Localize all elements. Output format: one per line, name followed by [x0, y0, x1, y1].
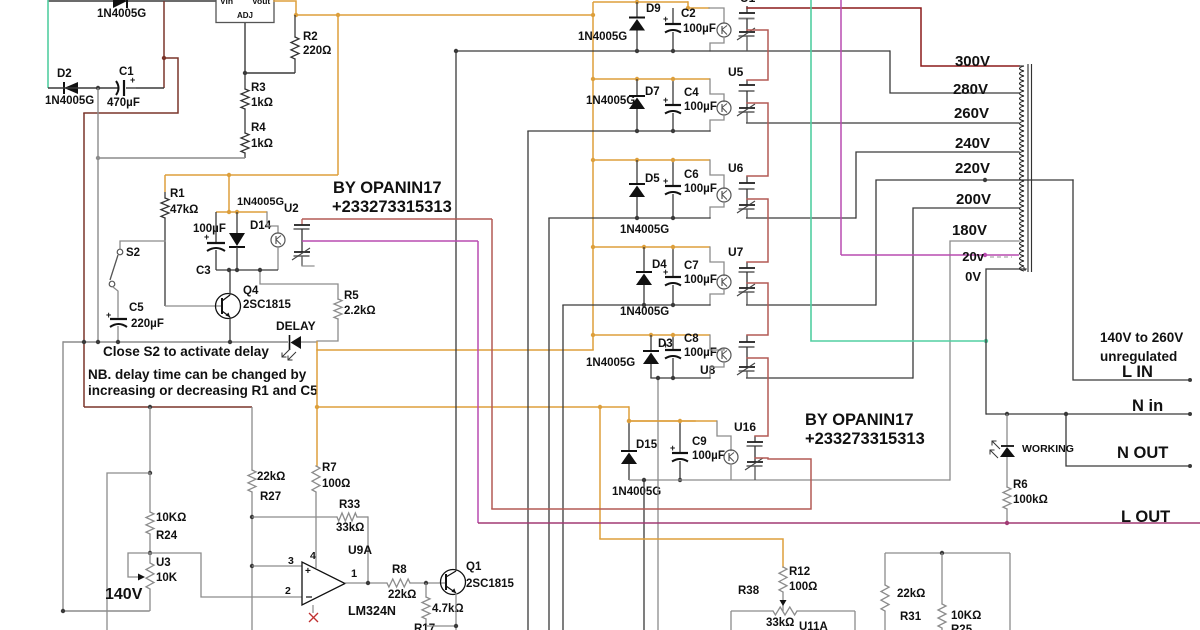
label WORKING: [1022, 443, 1074, 455]
node y88: [96, 86, 100, 90]
label pin3: [288, 555, 294, 567]
wire orange y539: [600, 539, 783, 567]
svg-text:L IN: L IN: [1122, 363, 1153, 381]
node feed cap C6: [671, 158, 675, 162]
svg-text:NB. delay time can be changed: NB. delay time can be changed by: [88, 367, 307, 382]
wire opamp out: [345, 582, 387, 584]
wire U8 emitter: [710, 362, 724, 379]
label U8: [700, 363, 716, 377]
node orange x338: [336, 13, 340, 17]
label U2: [284, 203, 299, 215]
svg-text:10KΩ: 10KΩ: [156, 512, 186, 524]
label U1 1N4005G: [578, 31, 627, 43]
text by opanin 2a: [805, 411, 914, 429]
svg-text:unregulated: unregulated: [1100, 349, 1177, 364]
wire pink x478: [477, 241, 479, 523]
label R3 1kohm: [251, 97, 273, 109]
svg-text:Q1: Q1: [466, 561, 482, 573]
resistor R35: [938, 553, 946, 630]
led WORKING arrows: [990, 441, 1000, 458]
wire row4 triac out: [746, 304, 876, 306]
triac U1 out: [737, 6, 755, 51]
label R8 22k: [388, 589, 416, 601]
triac U5 out: [737, 80, 755, 123]
label R1 47k: [170, 204, 198, 216]
node feed diode D3: [649, 333, 653, 337]
svg-text:220V: 220V: [955, 160, 990, 177]
wire red chain 3: [747, 199, 768, 262]
wire 300V: [747, 8, 1019, 66]
svg-text:U8: U8: [700, 363, 716, 377]
label 100uF C3: [193, 223, 226, 235]
svg-text:100Ω: 100Ω: [789, 581, 817, 593]
svg-text:Vout: Vout: [252, 0, 270, 6]
label D4: [652, 259, 667, 271]
opamp U9A: [302, 562, 345, 605]
node R8 Q1: [424, 581, 428, 585]
label C2 100uF: [683, 23, 716, 35]
wire feed row U6: [593, 159, 710, 161]
power rail teal left: [47, 0, 49, 88]
svg-text:100µF: 100µF: [684, 183, 717, 195]
label R4: [251, 122, 266, 134]
node bottom C2: [671, 49, 675, 53]
node feed U7: [591, 245, 595, 249]
svg-text:2SC1815: 2SC1815: [243, 299, 292, 311]
wire row1 bottom 280V bus: [456, 50, 890, 52]
optocoupler U7 input: [710, 247, 731, 289]
label U3 10K: [156, 572, 178, 584]
label U7: [728, 245, 744, 259]
wire orange top bus y15: [296, 13, 595, 17]
resistor R31: [881, 553, 889, 630]
resistor R24: [146, 473, 154, 553]
resistor R12: [779, 567, 787, 611]
svg-text:R3: R3: [251, 82, 266, 94]
label 0V: [965, 269, 981, 284]
diode D2: [64, 82, 78, 94]
label 200V: [956, 191, 991, 208]
wire feed row U16: [629, 420, 717, 422]
wire Vout to R2: [274, 1, 296, 15]
label 1N4005G top: [97, 8, 146, 20]
capacitor C2: [663, 8, 681, 51]
node orange y210: [227, 210, 231, 214]
node N in LED: [1005, 412, 1009, 416]
wire orange y421 feed: [629, 407, 695, 421]
label R17: [414, 623, 435, 630]
label C1 470uF: [107, 97, 140, 109]
svg-text:U11A: U11A: [799, 621, 828, 630]
optocoupler U5 input: [710, 79, 731, 115]
svg-text:140V to 260V: 140V to 260V: [1100, 330, 1183, 345]
svg-text:200V: 200V: [956, 191, 991, 208]
svg-text:C1: C1: [119, 66, 134, 78]
label R33 33k: [336, 522, 364, 534]
svg-text:U2: U2: [284, 203, 299, 215]
wire feed row U5: [593, 78, 710, 80]
node R6 LOUT: [1005, 521, 1009, 525]
label R6: [1013, 479, 1028, 491]
label U8 1N4005G: [586, 357, 635, 369]
resistor R3: [241, 73, 249, 133]
svg-text:2.2kΩ: 2.2kΩ: [344, 305, 376, 317]
wire red x492 up: [491, 219, 493, 509]
label D9: [646, 3, 661, 15]
svg-text:1N4005G: 1N4005G: [586, 95, 635, 107]
wire LOUT y523: [478, 522, 1200, 524]
label U16: [734, 420, 756, 434]
node x150 y473: [148, 471, 152, 475]
wire emitter y626: [426, 626, 456, 630]
node feed cap C8: [671, 333, 675, 337]
label pin4: [310, 550, 316, 562]
wire orange x600 drop: [599, 407, 601, 539]
svg-text:100kΩ: 100kΩ: [1013, 494, 1048, 506]
svg-text:1N4005G: 1N4005G: [612, 486, 661, 498]
wire red chain 5: [747, 358, 768, 436]
wire red chain 4: [747, 283, 768, 335]
label D5: [645, 173, 660, 185]
resistor R27: [248, 407, 256, 630]
optocoupler U16 input: [717, 421, 738, 464]
resistor R2: [291, 15, 299, 73]
diode D7: [629, 79, 645, 131]
label N in: [1132, 397, 1163, 415]
capacitor C8: [663, 335, 681, 378]
svg-text:U1: U1: [740, 0, 756, 5]
label R35 10K: [951, 610, 981, 622]
resistor R17 4k7: [422, 583, 430, 626]
wire left rail x63: [63, 342, 149, 611]
svg-text:DELAY: DELAY: [276, 319, 316, 333]
svg-text:33kΩ: 33kΩ: [336, 522, 364, 534]
node feed diode D4: [642, 245, 646, 249]
terminal N OUT: [1188, 464, 1192, 468]
wire delay rail y342: [63, 341, 288, 343]
node 220V: [983, 178, 987, 182]
wire teal x811: [811, 0, 986, 341]
wire red U16 out: [492, 458, 811, 509]
label R31: [900, 611, 922, 623]
label 240V: [955, 135, 990, 152]
wire row6 bottom bus: [629, 479, 950, 481]
wire orange y406: [317, 406, 629, 408]
node feed U8: [591, 333, 595, 337]
switch S2: [109, 241, 165, 317]
wire orange R1 stub: [164, 175, 166, 192]
label R5: [344, 290, 359, 302]
svg-text:N in: N in: [1132, 397, 1163, 415]
label 180V: [952, 222, 987, 239]
node x644: [642, 478, 646, 482]
label R7: [322, 462, 337, 474]
capacitor C3: [204, 212, 225, 270]
svg-text:+: +: [663, 14, 668, 24]
node y342 x230: [228, 340, 232, 344]
wire y158 to R4: [98, 157, 245, 159]
label L IN: [1122, 363, 1153, 381]
node R27 y566: [250, 564, 254, 568]
label R12: [789, 566, 810, 578]
label C8 100uF: [684, 347, 717, 359]
box U11A: [731, 611, 855, 630]
wire Q1 collector x456: [455, 51, 457, 570]
capacitor C6: [663, 160, 681, 218]
wire gray x98: [97, 88, 99, 342]
label unregulated: [1100, 349, 1177, 364]
svg-text:+233273315313: +233273315313: [805, 430, 925, 448]
svg-text:C7: C7: [684, 260, 699, 272]
svg-text:100Ω: 100Ω: [322, 478, 350, 490]
svg-text:U6: U6: [728, 161, 744, 175]
svg-text:220Ω: 220Ω: [303, 45, 331, 57]
svg-text:2: 2: [285, 585, 291, 597]
node bottom C8: [671, 376, 675, 380]
node feed diode D9: [635, 0, 639, 4]
resistor R7: [312, 466, 320, 568]
svg-text:33kΩ: 33kΩ: [766, 617, 794, 629]
wire U16 emitter: [730, 464, 732, 481]
node R5 branch: [258, 268, 262, 272]
label R38: [738, 585, 760, 597]
label U9A: [348, 543, 372, 557]
wire red U2 y219: [302, 218, 492, 220]
wire red chain 2: [747, 103, 768, 176]
svg-text:BY OPANIN17: BY OPANIN17: [333, 179, 442, 197]
wire U7 emitter: [710, 289, 724, 306]
label C8: [684, 333, 699, 345]
svg-text:100µF: 100µF: [684, 101, 717, 113]
triac U2 out: [292, 219, 314, 266]
wire 240V: [856, 152, 1019, 218]
label L OUT: [1121, 508, 1170, 526]
svg-text:+: +: [663, 95, 668, 105]
node orange x600: [598, 405, 602, 409]
label 220ohm: [303, 45, 331, 57]
svg-text:180V: 180V: [952, 222, 987, 239]
node y407 x150: [148, 405, 152, 409]
label D3: [658, 338, 673, 350]
svg-text:+: +: [663, 267, 668, 277]
node bottom D5: [635, 216, 639, 220]
label D2 1N4005G: [45, 95, 94, 107]
node U2 bottom a: [227, 268, 231, 272]
diode D14: [229, 212, 245, 270]
label C6: [684, 169, 699, 181]
wire row2 triac out: [746, 122, 1019, 124]
svg-text:R27: R27: [260, 491, 281, 503]
wire D2 row y88: [48, 87, 164, 89]
svg-text:1N4005G: 1N4005G: [97, 8, 146, 20]
wire feedback drop: [367, 517, 369, 583]
wire brown vertical x84: [83, 113, 85, 407]
svg-text:100µF: 100µF: [692, 450, 725, 462]
svg-text:L OUT: L OUT: [1121, 508, 1170, 526]
wire 220V: [876, 180, 1073, 305]
wire pink U2 y241: [302, 240, 478, 242]
label U5 1N4005G: [586, 95, 635, 107]
transformer T1 core: [1019, 64, 1032, 272]
label N OUT: [1117, 444, 1168, 462]
node x63 y611: [61, 609, 65, 613]
capacitor C5: [106, 310, 127, 342]
node feed U5: [591, 77, 595, 81]
wire U1 emitter: [710, 37, 724, 51]
label U11A: [799, 621, 828, 630]
label S2: [126, 247, 140, 259]
label D2: [57, 68, 72, 80]
triac U6 out: [737, 176, 755, 218]
transformer T1 winding: [1020, 66, 1025, 271]
svg-text:240V: 240V: [955, 135, 990, 152]
optocoupler U2 LED: [267, 212, 285, 270]
capacitor C1: [116, 75, 136, 96]
diode D4: [636, 247, 652, 305]
svg-text:increasing or decreasing R1 an: increasing or decreasing R1 and C5: [88, 383, 318, 398]
label ADJ: [237, 11, 253, 20]
label DELAY: [276, 319, 316, 333]
svg-text:R4: R4: [251, 122, 266, 134]
label C5 220uF: [131, 318, 164, 330]
wire x150 drop: [149, 407, 151, 473]
svg-text:U3: U3: [156, 557, 171, 569]
label C4 100uF: [684, 101, 717, 113]
wire bus y553: [885, 552, 1010, 554]
wire x644 drop: [643, 480, 645, 630]
label U6 1N4005G: [620, 224, 669, 236]
node y421 C9: [678, 419, 682, 423]
svg-text:+: +: [204, 232, 209, 242]
label pin2: [285, 585, 291, 597]
wire feed row U8: [593, 334, 710, 336]
resistor R5: [317, 299, 342, 341]
node feed cap C7: [671, 245, 675, 249]
resistor R8: [387, 579, 446, 587]
wire pot right: [150, 553, 302, 597]
svg-text:10KΩ: 10KΩ: [951, 610, 981, 622]
optocoupler U6 input: [710, 160, 731, 202]
transistor Q1: [441, 570, 466, 627]
label C5: [129, 302, 144, 314]
svg-text:U5: U5: [728, 65, 744, 79]
node x456 y51: [454, 49, 458, 53]
node ADJ-R3: [243, 71, 247, 75]
resistor R6: [1003, 487, 1011, 523]
label 140V: [105, 586, 143, 603]
label LM324N: [348, 604, 396, 618]
wire feed row U7: [593, 246, 710, 248]
label U16 1N4005G: [612, 486, 661, 498]
node 20v: [983, 253, 987, 257]
text by opanin 1b: [332, 198, 452, 216]
wire N in: [986, 413, 1190, 415]
label R31 22k: [897, 588, 925, 600]
svg-text:1kΩ: 1kΩ: [251, 138, 273, 150]
svg-text:C8: C8: [684, 333, 699, 345]
pin11 mark: [309, 605, 318, 622]
svg-text:1kΩ: 1kΩ: [251, 97, 273, 109]
label R6 100k: [1013, 494, 1048, 506]
wire row3 triac out: [746, 217, 856, 219]
label C9: [692, 436, 707, 448]
svg-text:R5: R5: [344, 290, 359, 302]
svg-text:220µF: 220µF: [131, 318, 164, 330]
svg-text:C6: C6: [684, 169, 699, 181]
text by opanin 2b: [805, 430, 925, 448]
diode D1 (top, clipped): [113, 0, 127, 8]
label R3: [251, 82, 266, 94]
wire C1 top node: [163, 1, 165, 88]
capacitor C7: [663, 247, 681, 305]
svg-text:22kΩ: 22kΩ: [897, 588, 925, 600]
svg-text:280V: 280V: [953, 81, 988, 98]
svg-text:0V: 0V: [965, 269, 981, 284]
wire x1010 drop: [1009, 553, 1011, 630]
label R4 1kohm: [251, 138, 273, 150]
wire 20v dashed: [990, 256, 1012, 258]
terminal N in: [1188, 412, 1192, 416]
wire orange y210: [216, 211, 267, 213]
label U6: [728, 161, 744, 175]
svg-text:U16: U16: [734, 420, 756, 434]
node orange y407: [315, 405, 319, 409]
triac U16 out: [745, 436, 763, 480]
wire U2 bottom: [216, 269, 278, 271]
label R35: [951, 624, 973, 630]
label R33: [339, 499, 360, 511]
svg-text:S2: S2: [126, 247, 140, 259]
wire 280V: [890, 51, 1019, 93]
svg-text:Vin: Vin: [220, 0, 233, 6]
node teal end: [984, 339, 988, 343]
svg-text:N OUT: N OUT: [1117, 444, 1168, 462]
node y342 x118: [116, 340, 120, 344]
node y553: [940, 551, 944, 555]
node C1 right: [162, 56, 166, 60]
wire 180V: [950, 241, 1019, 480]
led DELAY arrows: [282, 349, 296, 360]
svg-text:C5: C5: [129, 302, 144, 314]
node out: [366, 581, 370, 585]
wire plus input: [252, 565, 302, 567]
svg-text:LM324N: LM324N: [348, 604, 396, 618]
svg-text:R6: R6: [1013, 479, 1028, 491]
label 1N4005G D14: [237, 196, 284, 208]
svg-text:D15: D15: [636, 439, 658, 451]
resistor R4: [241, 133, 249, 158]
label 280V: [953, 81, 988, 98]
label 300V: [955, 53, 990, 70]
wire feedback y517: [252, 516, 368, 518]
wire feed corner U1: [686, 2, 709, 10]
svg-text:U9A: U9A: [348, 543, 372, 557]
wire R5 branch: [260, 270, 338, 299]
label Vin: [220, 0, 233, 6]
svg-text:470µF: 470µF: [107, 97, 140, 109]
triac U8 out: [737, 335, 755, 378]
wire N OUT: [1066, 414, 1190, 466]
wire x658 drop: [657, 378, 659, 630]
node bottom D4: [642, 303, 646, 307]
diode D3: [643, 335, 659, 378]
label R5 2.2k: [344, 305, 376, 317]
resistor R1: [161, 192, 169, 306]
label C7 100uF: [684, 274, 717, 286]
terminal L IN: [1188, 378, 1192, 382]
svg-text:R12: R12: [789, 566, 810, 578]
node bottom D7: [635, 129, 639, 133]
